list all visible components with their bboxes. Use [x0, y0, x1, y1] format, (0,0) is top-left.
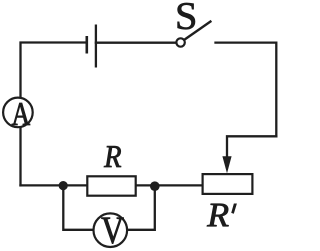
wire battery to switch — [96, 42, 176, 44]
rheostat R' box — [203, 174, 253, 194]
wire jog to rheostat slider — [227, 136, 276, 160]
wire left vertical below ammeter — [19, 128, 21, 186]
label R' letter R — [207, 204, 229, 226]
rheostat slider arrowhead — [222, 156, 231, 173]
node junction dot left — [59, 181, 68, 190]
wire top-left run: left vertical and top horizontal to battery — [21, 43, 87, 98]
wire voltmeter branch right — [128, 185, 155, 229]
battery short plate — [86, 36, 89, 54]
node junction dot right — [150, 181, 160, 191]
ammeter A circle — [3, 98, 33, 128]
switch S pivot circle — [176, 38, 184, 46]
voltmeter V circle — [94, 213, 128, 247]
wire switch to top-right corner and down right side — [216, 43, 277, 137]
label S — [178, 3, 195, 29]
label R' prime — [232, 204, 237, 214]
switch S blade — [185, 21, 212, 40]
wire voltmeter branch left — [63, 185, 93, 229]
label A — [12, 103, 30, 125]
label V — [102, 218, 124, 244]
label R — [104, 146, 121, 167]
resistor R box — [87, 176, 135, 195]
wire bottom main — [21, 184, 203, 186]
battery long plate — [95, 25, 97, 68]
